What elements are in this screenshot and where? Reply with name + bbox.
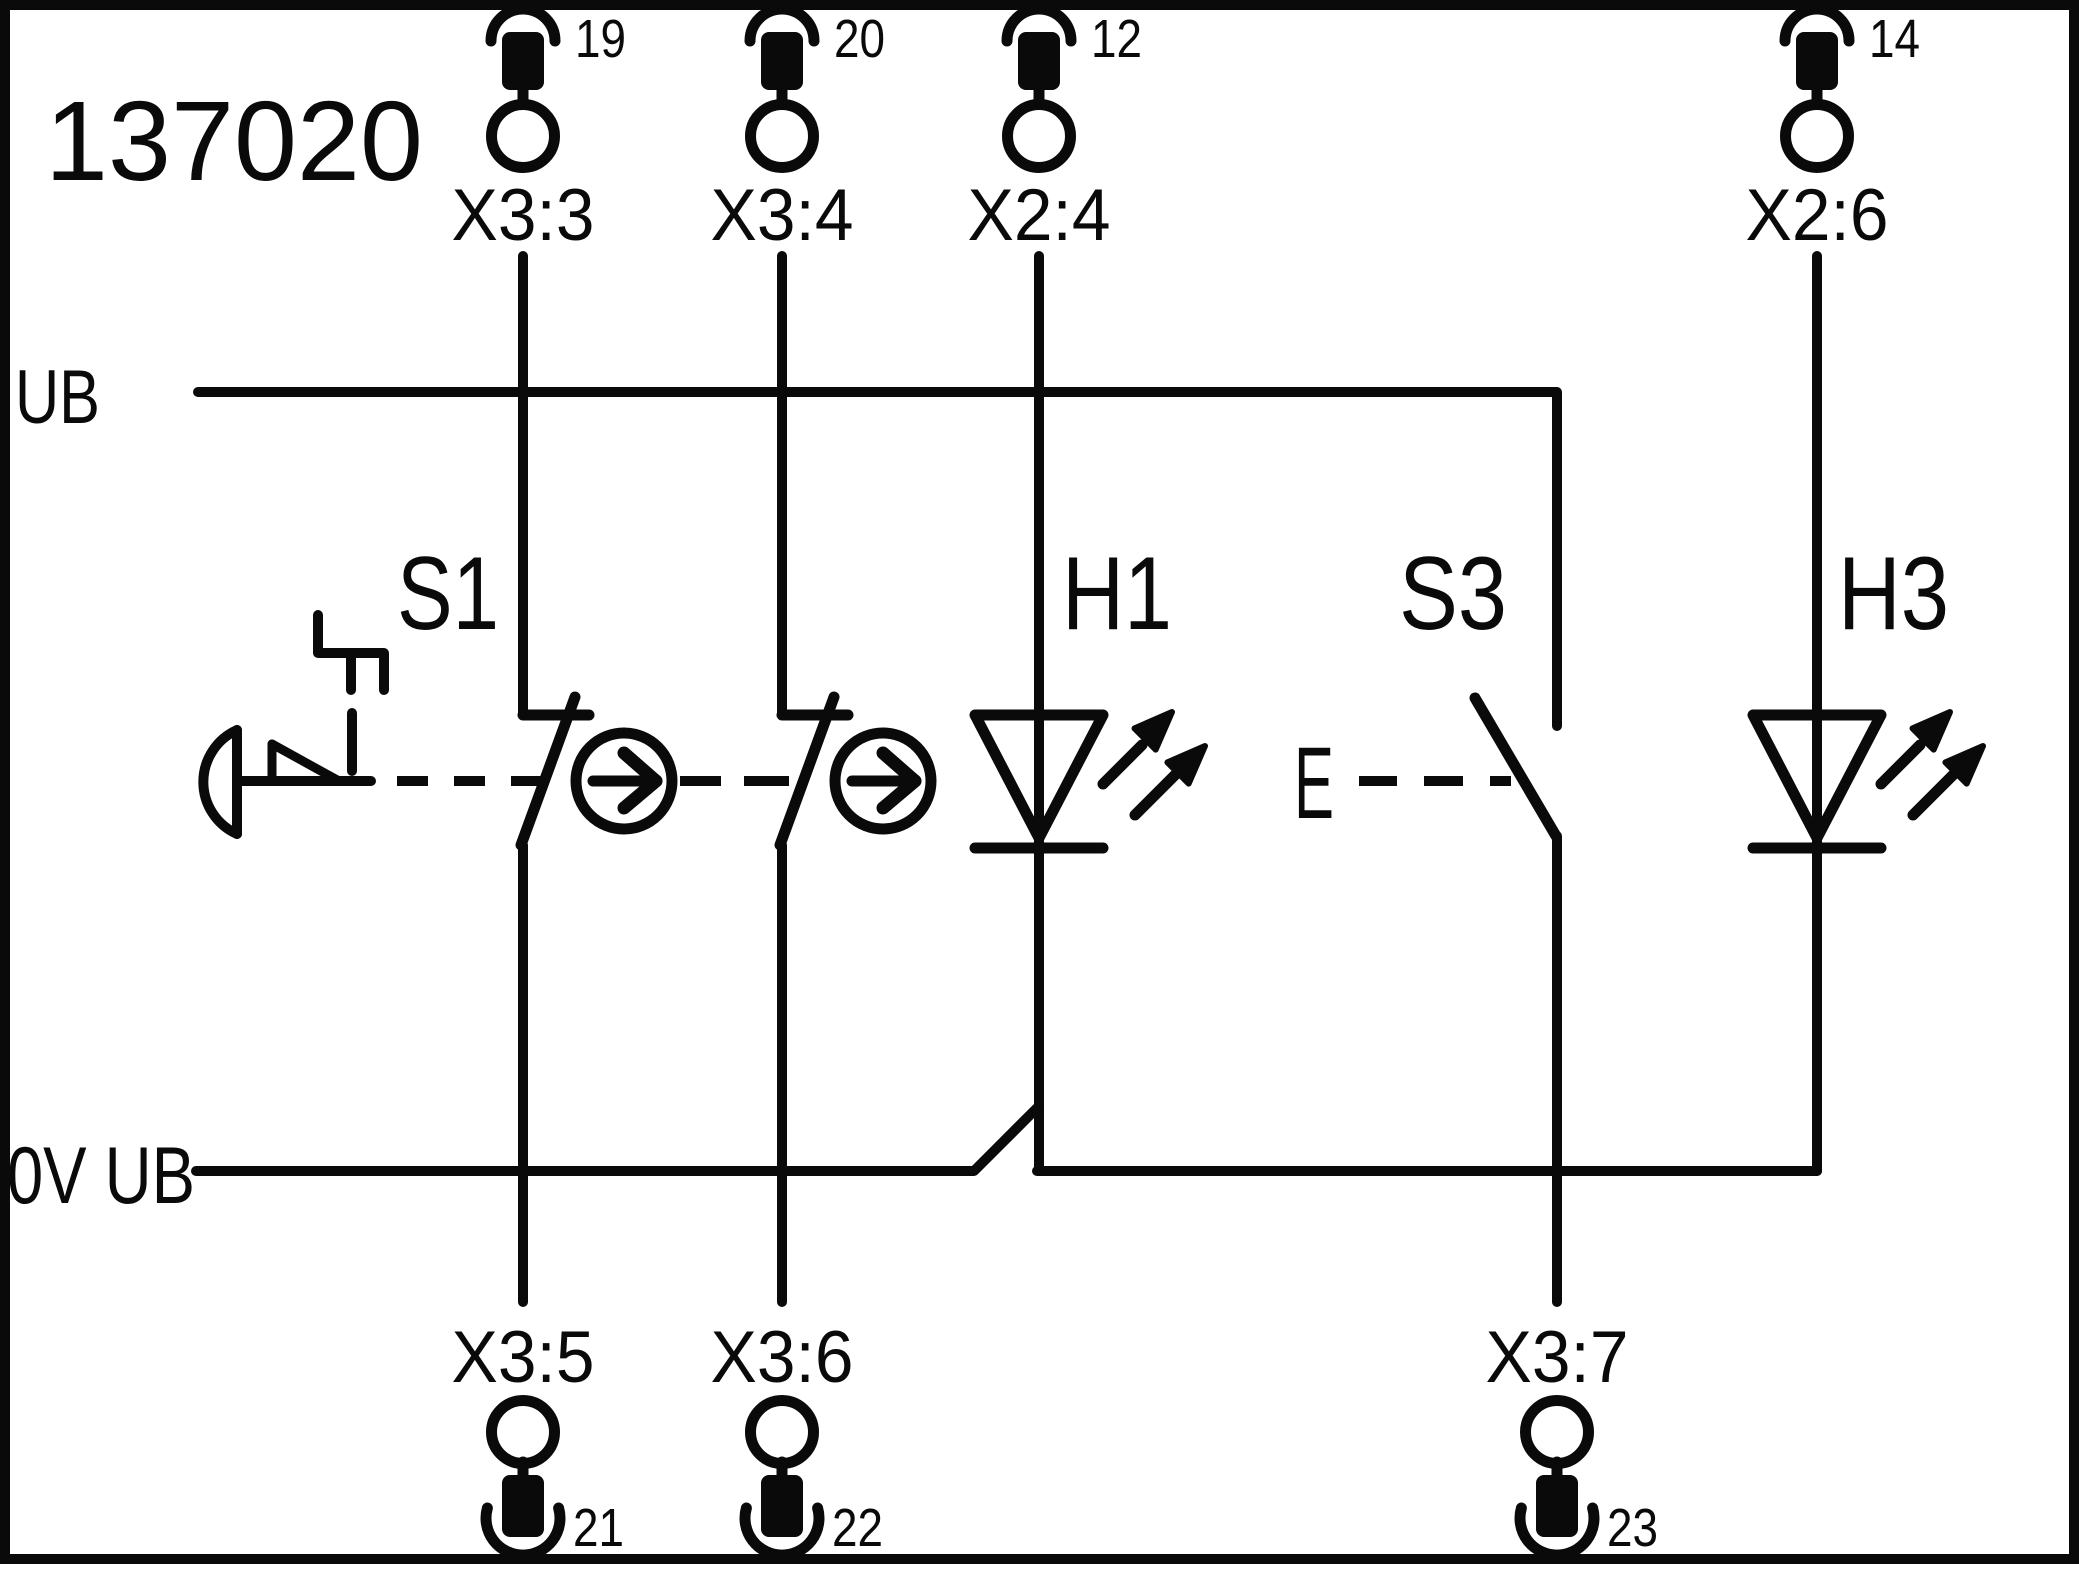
svg-text:X3:6: X3:6 (711, 1317, 854, 1398)
svg-text:UB: UB (15, 355, 100, 440)
svg-text:14: 14 (1869, 9, 1920, 69)
svg-text:22: 22 (832, 1498, 883, 1558)
svg-text:23: 23 (1607, 1498, 1658, 1558)
svg-text:X2:6: X2:6 (1746, 175, 1889, 256)
svg-text:19: 19 (575, 9, 626, 69)
svg-text:S1: S1 (397, 536, 499, 652)
svg-text:0V UB: 0V UB (7, 1131, 195, 1221)
svg-text:H3: H3 (1838, 536, 1949, 652)
svg-text:X3:3: X3:3 (452, 175, 595, 256)
svg-text:S3: S3 (1399, 536, 1507, 652)
svg-text:12: 12 (1091, 9, 1142, 69)
svg-text:X3:7: X3:7 (1486, 1317, 1629, 1398)
svg-text:21: 21 (573, 1498, 624, 1558)
svg-text:H1: H1 (1062, 536, 1172, 652)
svg-text:X3:4: X3:4 (711, 175, 854, 256)
svg-text:X3:5: X3:5 (452, 1317, 595, 1398)
svg-text:20: 20 (834, 9, 885, 69)
svg-text:137020: 137020 (45, 78, 423, 204)
svg-text:E: E (1294, 726, 1334, 840)
svg-text:X2:4: X2:4 (968, 175, 1111, 256)
